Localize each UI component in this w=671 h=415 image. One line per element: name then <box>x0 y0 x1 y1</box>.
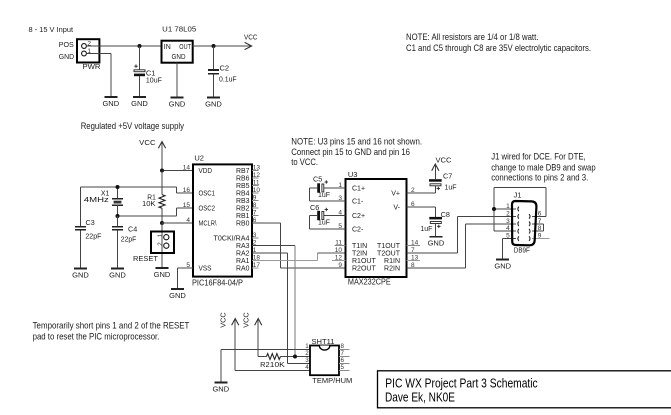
svg-text:VCC: VCC <box>436 156 453 165</box>
svg-text:GND: GND <box>205 100 222 109</box>
svg-text:C2+: C2+ <box>352 213 365 220</box>
svg-text:C5: C5 <box>313 175 322 184</box>
U2 right pin numbers <box>253 165 261 270</box>
svg-text:IN: IN <box>164 44 171 51</box>
wire: OSC2 net (crystal bottom to U2 pin 15) <box>118 208 194 216</box>
svg-text:TEMP/HUM: TEMP/HUM <box>312 376 352 385</box>
sensor SHT11 TEMP/HUM <box>310 337 352 385</box>
resistor R1 10K <box>142 171 165 224</box>
svg-text:R2OUT: R2OUT <box>352 265 376 272</box>
svg-text:1: 1 <box>305 343 309 350</box>
svg-text:7: 7 <box>341 350 345 357</box>
svg-text:GND: GND <box>109 271 126 280</box>
svg-text:GND: GND <box>154 270 171 279</box>
svg-text:C8: C8 <box>441 210 450 219</box>
svg-text:to VCC.: to VCC. <box>291 157 318 167</box>
svg-text:T2OUT: T2OUT <box>377 250 401 257</box>
svg-text:PWR: PWR <box>83 62 102 71</box>
note: J1 wiring <box>491 151 595 182</box>
svg-text:RB6: RB6 <box>236 175 250 182</box>
svg-text:R2IN: R2IN <box>384 265 400 272</box>
SHT11 right unconnected stubs pins 8-5 <box>339 350 350 371</box>
wire: VCC to SHT11 pin 4 <box>235 370 310 372</box>
svg-text:NOTE: U3 pins 15 and 16 not sh: NOTE: U3 pins 15 and 16 not shown. <box>291 136 422 146</box>
svg-text:RA1: RA1 <box>236 258 250 265</box>
node: input rail / C1 junction <box>138 44 142 48</box>
op IC U2 PIC16F84-04/P <box>192 153 252 287</box>
capacitor C2 0.1uF <box>208 46 237 98</box>
svg-text:1uF: 1uF <box>318 190 331 199</box>
wire: U2 RB0 (pin 6) to U3 R2OUT (pin 9) <box>252 223 346 268</box>
J1 female socket arcs pins 6-9 <box>529 214 530 241</box>
wire: OSC1 net (crystal top to U2 pin 16) <box>81 187 194 193</box>
svg-text:C2: C2 <box>220 64 230 73</box>
svg-text:GND: GND <box>494 262 511 271</box>
wire: U2 RA3 (pin 2) down to SHT11 DATA <box>252 246 295 357</box>
svg-text:22pF: 22pF <box>121 235 137 244</box>
ground (C8) <box>428 237 445 248</box>
node: SHT11 DATA junction (R2 / RA3) <box>293 355 297 359</box>
svg-text:J1: J1 <box>514 191 522 200</box>
svg-text:VCC: VCC <box>139 138 156 147</box>
J1 pin numbers 1-5 <box>506 203 510 240</box>
U3 left pin numbers <box>335 182 343 269</box>
svg-text:C6: C6 <box>310 203 319 212</box>
svg-text:1: 1 <box>157 233 164 237</box>
ground (C4) <box>109 269 126 280</box>
crystal X1 4MHz <box>84 187 123 216</box>
svg-text:Dave Ek, NK0E: Dave Ek, NK0E <box>385 390 455 404</box>
svg-text:Temporarily short pins 1 and 2: Temporarily short pins 1 and 2 of the RE… <box>33 321 190 331</box>
svg-text:connections to pins 2 and 3.: connections to pins 2 and 3. <box>491 173 588 183</box>
svg-text:4: 4 <box>186 217 190 224</box>
svg-text:R1IN: R1IN <box>384 258 400 265</box>
node: crystal bottom / C4 junction <box>116 214 120 218</box>
ground (C1) <box>131 97 148 108</box>
svg-text:8: 8 <box>341 343 345 350</box>
svg-text:RB0: RB0 <box>236 220 250 227</box>
svg-text:2: 2 <box>305 350 309 357</box>
node: 5V rail / C2 junction <box>212 44 216 48</box>
svg-text:RB5: RB5 <box>236 183 250 190</box>
ground (J1 pin 5) <box>494 260 511 271</box>
svg-text:RB3: RB3 <box>236 198 250 205</box>
svg-text:RB2: RB2 <box>236 205 250 212</box>
wire: PWR pin 2 to U1 IN (input rail) <box>86 45 161 47</box>
wire: VCC to U2 VDD pin 14 <box>162 170 193 172</box>
svg-text:RB1: RB1 <box>236 213 250 220</box>
J1 pin numbers 6-9 <box>538 210 542 239</box>
wire: junction to U2 MCLR pin 4 <box>162 222 193 224</box>
capacitor C4 22pF <box>112 216 137 269</box>
SHT11 right pin numbers 8-5 <box>341 343 345 371</box>
svg-text:10K: 10K <box>270 360 285 369</box>
svg-text:OUT: OUT <box>179 44 191 51</box>
U3 right pin numbers <box>411 187 419 269</box>
J1 pin 9 stub <box>532 238 550 240</box>
svg-text:4: 4 <box>506 225 510 232</box>
svg-text:5: 5 <box>506 233 510 240</box>
wire: U3 V- (pin 6) to C8 <box>407 206 436 208</box>
svg-text:T0CKI/RA4: T0CKI/RA4 <box>214 235 250 242</box>
svg-text:U2: U2 <box>194 153 204 162</box>
svg-text:RB7: RB7 <box>236 168 250 175</box>
regulator U1 78L05 <box>162 25 197 63</box>
svg-text:1uF: 1uF <box>445 182 458 191</box>
wire: SHT11 pin 1 to ground <box>221 350 310 383</box>
wire: U2 RA2 (pin 1) down to SHT11 SCK <box>252 253 310 364</box>
wire: J1 pins 1/4/6 tie (DTR-DSR-DCD loop) <box>494 188 546 232</box>
svg-text:R1OUT: R1OUT <box>352 258 376 265</box>
svg-text:GND: GND <box>72 271 89 280</box>
U2 left pin names <box>199 168 217 273</box>
svg-text:C2-: C2- <box>352 226 364 233</box>
svg-text:9: 9 <box>338 262 342 269</box>
connector J1 DB9F outline <box>512 191 536 255</box>
pad RESET (2-pin jumper pad) <box>133 223 174 268</box>
svg-text:15: 15 <box>183 202 191 209</box>
wire: U2 VSS pin 5 to ground <box>178 268 194 289</box>
J1 female socket arcs pins 1-5 <box>518 207 519 241</box>
svg-text:C1 and C5 through C8 are 35V e: C1 and C5 through C8 are 35V electrolyti… <box>406 43 591 53</box>
svg-text:R2: R2 <box>260 360 270 369</box>
U3 T1IN unconnected stub (pin 11) <box>335 245 346 247</box>
svg-text:GND: GND <box>212 385 229 394</box>
svg-text:PIC WX Project Part 3 Schemati: PIC WX Project Part 3 Schematic <box>385 376 537 390</box>
svg-text:3: 3 <box>305 357 309 364</box>
SHT11 left pin numbers 1-4 <box>305 343 309 371</box>
U3 left pin names <box>352 185 376 272</box>
title block <box>378 371 671 408</box>
U2 right unconnected pin stubs <box>252 171 259 269</box>
wire: U3 T2OUT (pin 7) to J1 pin 2 <box>407 216 517 253</box>
svg-text:14: 14 <box>183 165 191 172</box>
svg-text:DB9F: DB9F <box>514 245 530 254</box>
svg-text:C1+: C1+ <box>352 185 365 192</box>
svg-text:GND: GND <box>102 99 119 108</box>
svg-text:change to male DB9 and swap: change to male DB9 and swap <box>491 162 595 172</box>
svg-text:V-: V- <box>393 204 400 211</box>
svg-text:4: 4 <box>305 364 309 371</box>
svg-text:OSC2: OSC2 <box>199 205 216 212</box>
svg-text:10K: 10K <box>142 199 156 208</box>
wire: U1 OUT to VCC arrow (5V rail) <box>193 45 251 47</box>
U3 R1IN unconnected stub (pin 13) <box>407 260 421 262</box>
svg-text:C1-: C1- <box>352 198 364 205</box>
svg-text:C4: C4 <box>128 224 137 233</box>
note: U3 pins 15 and 16 <box>291 136 422 167</box>
capacitor C7 1uF (V+ to VCC) <box>429 172 457 194</box>
svg-text:PIC16F84-04/P: PIC16F84-04/P <box>192 278 243 287</box>
wire: U2 RA1 (pin 18) to U3 T2IN (pin 10) <box>252 253 346 261</box>
U2 left pin numbers 14 16 15 4 5 <box>183 165 191 270</box>
wire: U1 GND pin to ground <box>176 63 178 98</box>
node: J1 pin1 junction <box>492 207 496 211</box>
note: resistors / capacitors <box>406 32 591 53</box>
svg-text:VSS: VSS <box>199 265 212 272</box>
wire: J1 pin 5 to ground <box>503 239 517 260</box>
svg-text:5: 5 <box>341 364 345 371</box>
svg-text:VDD: VDD <box>199 168 213 175</box>
svg-text:VCC: VCC <box>219 312 228 328</box>
ground (U2 VSS) <box>169 289 186 300</box>
svg-text:6: 6 <box>341 357 345 364</box>
power symbol VCC (right arrow) <box>244 32 258 49</box>
svg-text:GND: GND <box>131 99 148 108</box>
svg-text:8: 8 <box>538 225 542 232</box>
svg-text:T1IN: T1IN <box>352 243 367 250</box>
svg-text:POS: POS <box>59 40 74 49</box>
svg-text:10: 10 <box>335 247 343 254</box>
svg-text:4MHz: 4MHz <box>84 195 110 204</box>
svg-text:1uF: 1uF <box>318 218 331 227</box>
svg-text:16: 16 <box>183 187 191 194</box>
svg-text:7: 7 <box>538 218 542 225</box>
svg-text:GND: GND <box>169 291 186 300</box>
svg-text:0.1uF: 0.1uF <box>219 75 237 84</box>
svg-text:9: 9 <box>538 233 542 240</box>
svg-text:RA3: RA3 <box>236 243 250 250</box>
svg-text:RB4: RB4 <box>236 190 250 197</box>
node: crystal top / C3 junction <box>116 185 120 189</box>
ground (C3) <box>72 269 89 280</box>
capacitor C1 10uF electrolytic <box>134 46 162 97</box>
svg-text:RA0: RA0 <box>236 265 250 272</box>
svg-text:RA2: RA2 <box>236 250 250 257</box>
svg-text:VCC: VCC <box>242 312 251 328</box>
wire: PWR pin 1 to GND <box>86 54 111 98</box>
svg-text:3: 3 <box>506 218 510 225</box>
U3 R1OUT unconnected stub (pin 12) <box>332 260 346 262</box>
svg-text:2: 2 <box>157 242 164 246</box>
caption: reset instructions <box>33 321 190 342</box>
svg-text:Regulated +5V voltage supply: Regulated +5V voltage supply <box>81 121 185 131</box>
U2 right pin names RB7..RB0, RA4..RA0 <box>214 168 250 273</box>
svg-text:C3: C3 <box>86 218 95 227</box>
svg-text:10uF: 10uF <box>146 76 162 85</box>
wire: U3 R2IN (pin 8) to J1 pin 3 <box>407 224 517 268</box>
svg-text:1: 1 <box>506 203 510 210</box>
ground (RESET pad) <box>154 268 171 279</box>
ground (PWR return) <box>102 97 119 108</box>
ground (U1) <box>169 98 186 109</box>
svg-text:V+: V+ <box>391 190 400 197</box>
svg-text:GND: GND <box>59 52 75 61</box>
svg-text:1uF: 1uF <box>420 224 433 233</box>
resistor R2 10K (DATA pullup) <box>258 354 310 369</box>
svg-text:22pF: 22pF <box>85 231 102 240</box>
svg-text:T1OUT: T1OUT <box>377 243 401 250</box>
svg-text:OSC1: OSC1 <box>199 190 216 197</box>
svg-text:pad to reset the PIC microproc: pad to reset the PIC microprocessor. <box>33 331 160 341</box>
svg-text:6: 6 <box>538 210 542 217</box>
svg-text:GND: GND <box>428 239 445 248</box>
U3 right pin names <box>377 190 401 272</box>
svg-text:SHT11: SHT11 <box>312 337 335 346</box>
svg-text:T2IN: T2IN <box>352 250 367 257</box>
svg-text:J1 wired for DCE. For DTE,: J1 wired for DCE. For DTE, <box>491 151 586 161</box>
U3 T1OUT unconnected stub (pin 14) <box>407 245 421 247</box>
capacitor C8 1uF (V- to GND) <box>420 207 450 237</box>
wire: J1 pins 7-8 jumper (RTS-CTS loop) <box>532 224 544 231</box>
connector J PWR (power input header) <box>77 39 99 62</box>
node: VCC / R1 junction <box>160 169 164 173</box>
node: MCLR / R1 / RESET junction <box>160 221 164 225</box>
op IC U3 MAX232CPE <box>346 170 407 286</box>
wire: U3 V+ (pin 2) to C7 <box>407 192 436 194</box>
svg-text:2: 2 <box>506 210 510 217</box>
capacitor C5 1uF (C1+/C1-) <box>309 175 345 201</box>
svg-text:U3: U3 <box>348 170 358 179</box>
svg-text:MAX232CPE: MAX232CPE <box>348 277 391 286</box>
svg-text:Connect pin 15 to GND and pin: Connect pin 15 to GND and pin 16 <box>291 147 410 157</box>
svg-text:RESET: RESET <box>133 254 158 263</box>
capacitor C3 22pF <box>75 187 102 269</box>
capacitor C6 1uF (C2+/C2-) <box>309 203 345 229</box>
svg-text:NOTE: All resistors are 1/4 or: NOTE: All resistors are 1/4 or 1/8 watt. <box>406 32 538 42</box>
svg-text:U1 78L05: U1 78L05 <box>162 25 196 34</box>
ground (C2) <box>205 98 222 109</box>
svg-text:C7: C7 <box>443 172 452 181</box>
svg-text:MCLR\: MCLR\ <box>199 220 217 227</box>
svg-text:8 - 15 V Input: 8 - 15 V Input <box>29 25 74 34</box>
ground (SHT11 pin 1) <box>212 383 229 394</box>
svg-text:VCC: VCC <box>244 32 258 41</box>
svg-text:GND: GND <box>172 54 186 61</box>
svg-text:GND: GND <box>169 100 186 109</box>
